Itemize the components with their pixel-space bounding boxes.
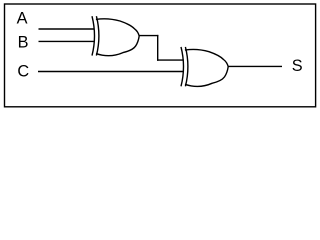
wire input B	[39, 40, 95, 42]
wire input C	[38, 71, 184, 73]
wire output S	[228, 65, 282, 67]
wire input A	[39, 28, 95, 30]
wire U1 output to corner	[139, 35, 159, 37]
xor gate U1 (A xor B)	[92, 16, 139, 56]
svg-text:A: A	[17, 10, 28, 28]
border frame	[5, 4, 316, 107]
svg-text:B: B	[18, 34, 29, 52]
svg-text:C: C	[17, 62, 29, 80]
wire vertical drop	[157, 35, 159, 61]
svg-text:S: S	[292, 57, 303, 75]
xor gate U2 ((A xor B) xor C)	[181, 47, 228, 87]
wire into U2 top input	[157, 59, 184, 61]
